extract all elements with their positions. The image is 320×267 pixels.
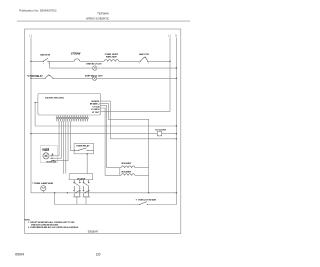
junction lamp line at N xyxy=(176,133,177,134)
coil oven vent fan xyxy=(104,60,119,62)
junction lamp line at left bus xyxy=(30,133,31,134)
junction y126 at N xyxy=(176,125,177,126)
lamp oven light OV xyxy=(157,131,162,136)
svg-text:SURF IND LT 120V: SURF IND LT 120V xyxy=(85,75,103,77)
wire control left entry stub xyxy=(35,102,38,104)
wire element loop left vertical xyxy=(119,168,121,176)
wire row1 xyxy=(31,60,170,62)
svg-text:OVEN DOOR CLOSED AND UNLOCKED: OVEN DOOR CLOSED AND UNLOCKED xyxy=(31,223,58,226)
svg-text:TIMER: TIMER xyxy=(42,150,50,152)
lamp oven light indicator xyxy=(93,66,97,70)
svg-text:BAKE LT SW: BAKE LT SW xyxy=(139,53,149,56)
terminal marks on motor feed wires xyxy=(52,155,55,161)
resistor broil element xyxy=(121,166,135,168)
latch contact upper right xyxy=(83,180,89,186)
junction row1 at L1 xyxy=(169,61,170,62)
svg-text:OVEN IND LT 120V: OVEN IND LT 120V xyxy=(86,63,102,65)
svg-text:*4 TOD RELAY: *4 TOD RELAY xyxy=(27,75,43,78)
junction row1 at left bus xyxy=(30,61,31,62)
wire left L1 bus xyxy=(31,38,176,193)
title rule xyxy=(17,20,190,22)
svg-text:BR ELEMENT: BR ELEMENT xyxy=(122,163,132,165)
wire line from control left to N at y126 xyxy=(35,103,176,127)
thermal limiter 375W xyxy=(74,59,80,61)
electronic oven control box U1 xyxy=(38,94,101,116)
latch contact lower right xyxy=(83,186,89,196)
switch row3 xyxy=(45,75,52,78)
wire row1 branch down xyxy=(49,61,51,68)
lamp surface indicator xyxy=(92,76,96,80)
connector comb P1 xyxy=(56,116,88,122)
svg-text:OVEN LGT SW 40W: OVEN LGT SW 40W xyxy=(138,199,156,202)
svg-text:59026047: 59026047 xyxy=(88,230,99,234)
svg-text:LT OUT: LT OUT xyxy=(92,112,101,114)
svg-text:BK ELEMENT: BK ELEMENT xyxy=(122,172,132,174)
svg-text:DR LATCH: DR LATCH xyxy=(77,177,85,180)
junction row3 at N xyxy=(176,78,177,79)
svg-text:1: 1 xyxy=(139,63,140,65)
wire element row2 tail xyxy=(135,174,149,176)
junction Y1 dots xyxy=(54,192,55,193)
wire row2 xyxy=(50,67,177,69)
wire control exit 4 to bake element xyxy=(101,108,122,175)
svg-text:MOTOR 120V: MOTOR 120V xyxy=(47,162,57,164)
door latch box S1 xyxy=(69,174,93,180)
svg-text:OV LIGHT: OV LIGHT xyxy=(155,130,167,132)
svg-text:* OVEN LAMP 40W: * OVEN LAMP 40W xyxy=(32,182,53,185)
svg-text:OVEN RELAY: OVEN RELAY xyxy=(76,145,90,148)
junction exit line at N bus y138.8 xyxy=(176,138,177,139)
resistor bake element xyxy=(121,174,135,176)
svg-text:N: N xyxy=(175,33,177,37)
wire comb drop 5 to motor low xyxy=(51,121,68,161)
svg-text:L1 LINE IN: L1 LINE IN xyxy=(91,109,100,111)
svg-text:BAKE UN SW: BAKE UN SW xyxy=(40,54,50,57)
latch terminal bars xyxy=(73,195,80,198)
wire right L1 bus with elbow to control xyxy=(101,38,171,112)
svg-text:TEF364A: TEF364A xyxy=(97,12,109,16)
svg-text:Publication No. 5995407052: Publication No. 5995407052 xyxy=(19,8,57,12)
svg-text:BK BROIL: BK BROIL xyxy=(92,101,101,103)
wire control exit 2 to element loop xyxy=(101,103,149,192)
svg-text:L1: L1 xyxy=(29,33,32,37)
wire comb drop 6 to relay xyxy=(70,121,74,150)
wire bottom lamp stub xyxy=(42,191,44,193)
latch contact lower left xyxy=(74,186,81,196)
svg-text:FAN 25W: FAN 25W xyxy=(106,55,117,58)
svg-text:2. COMPONENTS ARE N ID LOC LI: 2. COMPONENTS ARE N ID LOC LISTED ON ALL… xyxy=(28,226,79,229)
svg-text:CT DLB: CT DLB xyxy=(93,106,101,108)
wire comb drop 3 to latch xyxy=(63,121,65,174)
svg-text:2: 2 xyxy=(148,63,149,65)
svg-text:1: 1 xyxy=(43,63,44,65)
svg-text:WIRING SCHEMATIC: WIRING SCHEMATIC xyxy=(86,16,109,20)
relay box K1 xyxy=(74,143,94,154)
wire comb drop 2 to motor xyxy=(50,121,61,158)
switch oven light sw xyxy=(140,202,147,205)
svg-text:09/04: 09/04 xyxy=(15,252,24,256)
wire relay bottom to latch xyxy=(86,154,88,174)
wire comb drop 4 to latch xyxy=(65,121,67,174)
wire control exit 1 to N xyxy=(101,101,177,139)
wire control exit 3 to broil element xyxy=(101,106,122,168)
junction control left entry xyxy=(35,102,36,103)
switch row1 bake unit sw xyxy=(44,58,48,61)
svg-text:3750W: 3750W xyxy=(71,53,81,56)
switch row1 oven fan sw xyxy=(141,57,148,61)
schematic frame xyxy=(25,29,181,233)
latch contact upper left xyxy=(74,180,81,186)
wire oven lamp line y133.7 xyxy=(31,133,176,135)
lamp oven lamp bottom xyxy=(41,186,46,191)
svg-text:L1: L1 xyxy=(168,33,171,37)
svg-text:ELECTRONIC OVEN CONTROL: ELECTRONIC OVEN CONTROL xyxy=(45,97,64,99)
junction row3 at left bus xyxy=(30,78,31,79)
svg-text:2: 2 xyxy=(49,63,50,65)
svg-text:BR BAKE L2: BR BAKE L2 xyxy=(90,103,100,106)
wire latch bar drops xyxy=(77,197,86,204)
svg-text:10: 10 xyxy=(96,252,101,256)
timer motor block M1 xyxy=(40,146,57,163)
wire element row1 tail xyxy=(135,167,149,169)
wire row3 xyxy=(31,77,176,79)
wire comb drop 1 to motor xyxy=(50,121,59,156)
junction relay coil feed xyxy=(74,150,75,151)
junction row2 at N xyxy=(176,67,177,68)
wire right N bus with bottom elbow xyxy=(55,38,177,205)
